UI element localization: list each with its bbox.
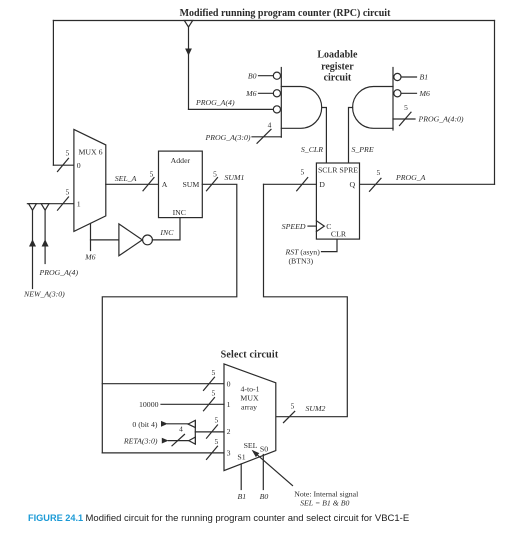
wire feedback tap vertical PROG_A(4) — [188, 27, 190, 109]
svg-text:1: 1 — [77, 199, 81, 208]
svg-text:MUX 6: MUX 6 — [78, 148, 102, 157]
and-gate AND1 input bar — [280, 68, 282, 138]
svg-text:CLR: CLR — [331, 230, 347, 239]
svg-text:SCLR SPRE: SCLR SPRE — [318, 166, 358, 175]
slash bus width 5 on MUX6 in0 — [58, 158, 69, 171]
svg-text:A: A — [162, 180, 168, 189]
slash bus width 5 select in0 — [204, 377, 215, 390]
svg-text:M6: M6 — [245, 89, 256, 98]
svg-text:Q: Q — [349, 180, 355, 189]
svg-text:Adder: Adder — [171, 156, 191, 165]
arrowhead 0 (bit 4) — [161, 421, 168, 427]
svg-text:SEL: SEL — [244, 441, 258, 450]
funnel tap triangle bottom — [189, 437, 196, 444]
slash bus width 5 on SUM1 — [207, 178, 218, 191]
arrowhead up NEW_A — [29, 239, 36, 246]
wire feedback right vertical — [494, 21, 496, 185]
mux U1 MUX 6 trapezoid — [74, 129, 106, 231]
svg-text:MUX: MUX — [240, 393, 259, 402]
wire select input 3 branch — [102, 452, 224, 454]
slash bus width 5 select in1 — [204, 398, 215, 411]
note text internal signal — [294, 489, 359, 507]
svg-text:M6: M6 — [419, 89, 430, 98]
bubble AND2 pin B1 — [394, 73, 401, 80]
svg-text:B0: B0 — [248, 71, 257, 80]
wire SUM2 feedback to D — [264, 184, 348, 416]
svg-text:B0: B0 — [260, 492, 269, 501]
heading Loadable register circuit — [317, 50, 358, 84]
wire PROG_A(4:0) — [393, 118, 415, 120]
slash bus width 5 select in3 — [207, 446, 218, 459]
svg-text:INC: INC — [159, 228, 174, 237]
wire Q output PROG_A — [360, 183, 495, 185]
svg-text:S1: S1 — [237, 453, 245, 462]
slash bus width 5 on D — [297, 178, 308, 191]
flip-flop U4 register box — [316, 163, 359, 239]
svg-text:B1: B1 — [420, 73, 429, 82]
svg-text:5: 5 — [211, 388, 215, 397]
wire B0 select pin — [262, 455, 264, 490]
wire MUX6 input 0 — [53, 164, 74, 166]
svg-text:5: 5 — [404, 103, 408, 112]
svg-text:PROG_A(3:0): PROG_A(3:0) — [204, 133, 250, 142]
svg-text:B1: B1 — [237, 492, 246, 501]
svg-text:register: register — [321, 61, 354, 72]
svg-text:0: 0 — [77, 161, 81, 170]
bubble AND1 pin PROG_A(4) — [273, 106, 280, 113]
svg-text:PROG_A(4): PROG_A(4) — [195, 98, 235, 107]
wire INC — [152, 218, 180, 240]
svg-text:SPEED: SPEED — [282, 222, 306, 231]
svg-text:NEW_A(3:0): NEW_A(3:0) — [23, 290, 65, 299]
svg-text:4: 4 — [179, 425, 183, 434]
svg-text:D: D — [319, 180, 325, 189]
svg-text:Modified running program count: Modified running program counter (RPC) c… — [180, 8, 391, 19]
wire select input 0 branch — [102, 383, 224, 385]
adder U2 box — [159, 151, 203, 218]
slash bus width 5 on SUM2 — [284, 411, 295, 422]
wire select input 1 — [161, 403, 224, 405]
svg-text:FIGURE 24.1: FIGURE 24.1 — [28, 513, 83, 523]
svg-text:5: 5 — [150, 170, 154, 179]
arrowhead RETA — [162, 438, 169, 444]
wire B1 — [401, 76, 416, 78]
svg-text:INC: INC — [173, 208, 186, 217]
arrowhead down on feedback tap — [185, 49, 192, 56]
bus tap triangle top — [184, 21, 192, 28]
wire feedback top border PROG_A loop — [53, 20, 494, 22]
svg-text:S_CLR: S_CLR — [301, 145, 323, 154]
svg-text:SUM1: SUM1 — [225, 173, 245, 182]
bubble AND1 pin B0 — [273, 72, 280, 79]
svg-text:S0: S0 — [260, 445, 268, 454]
svg-text:5: 5 — [211, 368, 215, 377]
funnel bar bus merge — [194, 421, 196, 444]
wire M6 select stub — [90, 224, 92, 251]
svg-text:5: 5 — [65, 148, 69, 157]
wire RETA(3:0) — [169, 440, 189, 442]
svg-text:5: 5 — [213, 170, 217, 179]
and-gate AND1 body — [281, 87, 321, 129]
wire AND1 output S_CLR — [322, 108, 327, 164]
wire B0 — [259, 75, 274, 77]
svg-text:5: 5 — [214, 437, 218, 446]
inverter U3 triangle — [119, 224, 142, 256]
wire M6 right — [401, 92, 416, 94]
svg-text:Note: Internal signal: Note: Internal signal — [294, 489, 359, 498]
slash bus width 4 — [257, 129, 271, 143]
wire D input — [264, 183, 317, 185]
svg-text:Loadable: Loadable — [317, 50, 358, 61]
wire PROG_A(3:0) — [252, 136, 281, 138]
and-gate AND2 input bar — [392, 68, 394, 131]
svg-text:PROG_A: PROG_A — [395, 173, 426, 182]
svg-text:SUM: SUM — [182, 180, 199, 189]
wire SPEED — [308, 225, 316, 227]
svg-text:4: 4 — [268, 120, 272, 129]
svg-text:1: 1 — [227, 400, 231, 409]
svg-text:0: 0 — [227, 379, 231, 388]
wire AND2 output S_PRE — [349, 108, 353, 164]
wire MUX6 input 1 — [27, 203, 74, 205]
wire PROG_A(4) to AND1 input — [189, 108, 273, 110]
slash bus width 5 on MUX6 in1 — [58, 197, 69, 210]
wire RST to CLR — [322, 239, 338, 252]
svg-text:5: 5 — [377, 168, 381, 177]
bus tap triangle NEW_A — [29, 204, 37, 211]
svg-text:SEL_A: SEL_A — [115, 174, 137, 183]
and-gate AND2 body mirrored — [353, 87, 393, 129]
wire SUM1 output — [102, 184, 237, 453]
svg-text:0 (bit 4): 0 (bit 4) — [132, 420, 158, 429]
wire MUX6 output SEL_A — [106, 183, 159, 185]
svg-text:4-to-1: 4-to-1 — [240, 384, 259, 393]
slash bus width 5 on SEL_A — [143, 178, 154, 191]
wire M6 to inverter — [91, 239, 119, 241]
svg-text:Modified circuit for the runni: Modified circuit for the running program… — [86, 513, 410, 524]
wire funnel to select input 2 — [195, 431, 224, 433]
arrowhead up PROG_A4 — [42, 239, 49, 246]
svg-text:S_PRE: S_PRE — [352, 145, 374, 154]
svg-text:SUM2: SUM2 — [306, 404, 326, 413]
svg-text:Select circuit: Select circuit — [221, 349, 279, 360]
wire PROG_A(4) vertical — [44, 210, 46, 263]
clock wedge — [316, 221, 324, 232]
bubble inverter output — [143, 235, 153, 245]
slash bus width 5 select in2 — [207, 425, 218, 438]
svg-text:circuit: circuit — [324, 73, 352, 84]
bus tap triangle PROG_A4 — [41, 204, 49, 211]
wire 0 (bit 4) — [168, 423, 189, 425]
wire NEW_A(3:0) vertical — [32, 210, 34, 288]
bubble AND1 pin M6 — [273, 90, 280, 97]
svg-text:5: 5 — [291, 401, 295, 410]
svg-text:5: 5 — [65, 188, 69, 197]
wire M6 — [259, 92, 274, 94]
slash bus width 5 on Q — [370, 178, 382, 191]
svg-text:3: 3 — [227, 448, 231, 457]
funnel tap triangle top — [188, 420, 195, 427]
arrowhead note arrow — [252, 450, 260, 457]
svg-text:PROG_A(4:0): PROG_A(4:0) — [418, 115, 464, 124]
svg-text:RST (asyn): RST (asyn) — [285, 247, 321, 256]
wire note arrow line — [257, 454, 293, 485]
svg-text:5: 5 — [214, 415, 218, 424]
svg-text:RETA(3:0): RETA(3:0) — [123, 436, 158, 445]
mux U5 select 4-to-1 trapezoid — [224, 364, 276, 471]
svg-text:2: 2 — [227, 427, 231, 436]
bubble AND2 pin M6 — [394, 90, 401, 97]
svg-text:SEL = B1 & B0: SEL = B1 & B0 — [300, 499, 349, 508]
slash bus width 5 — [400, 112, 412, 125]
svg-text:5: 5 — [300, 167, 304, 176]
slash bus width 4 on RETA — [172, 434, 185, 445]
svg-text:M6: M6 — [84, 252, 95, 261]
svg-text:10000: 10000 — [139, 400, 159, 409]
wire feedback left vertical — [52, 21, 54, 166]
wire B1 select pin — [240, 464, 242, 490]
svg-text:(BTN3): (BTN3) — [288, 257, 313, 266]
svg-text:PROG_A(4): PROG_A(4) — [39, 268, 79, 277]
svg-text:array: array — [241, 402, 257, 411]
